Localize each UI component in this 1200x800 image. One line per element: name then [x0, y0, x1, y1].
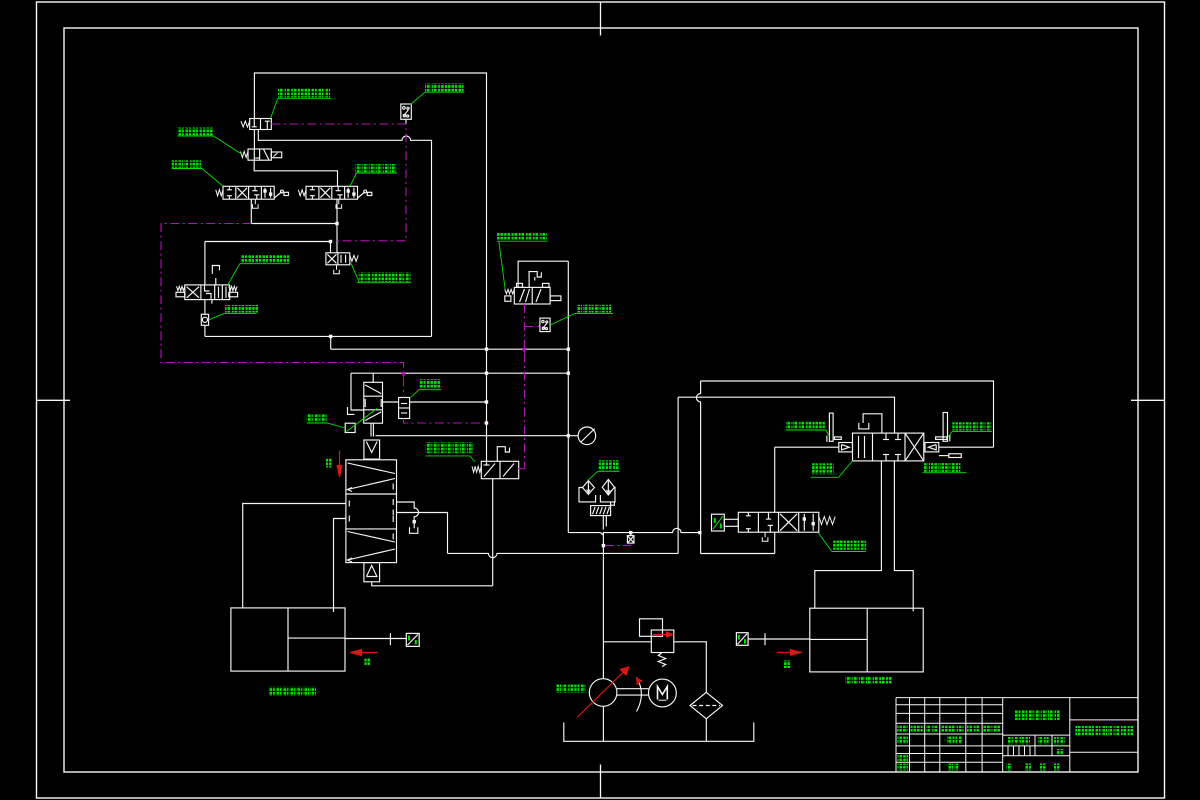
wire: bottom link from left riser to prop valve drop — [701, 553, 775, 555]
pilot through shuttle down to node x=486.5 — [403, 378, 405, 398]
label runner blade servomotor tank — [846, 676, 892, 684]
pilot EV bottom to PS2 and down to V7 — [523, 304, 525, 348]
pump oil tank open box — [564, 723, 754, 742]
wire: V1 top port up and across to long right drop — [254, 73, 486, 461]
label tb pages — [1054, 763, 1059, 770]
pilot line V1 to PS1 and down to node — [271, 124, 406, 241]
sensor left (blade close) — [829, 413, 833, 441]
orifice plug OX below collector — [630, 533, 632, 536]
wire: left tank to shut valve — [345, 638, 406, 640]
red arrow on motor coupling — [637, 679, 640, 685]
wire: block left port A line — [243, 504, 346, 608]
gauge G1 pressure gauge — [578, 427, 596, 445]
label tb zone — [926, 726, 938, 733]
pilot orifice branch at pump suction — [605, 543, 631, 546]
shuttle/throttle valve SV — [399, 398, 410, 419]
label prop solenoid valve 2 — [356, 164, 397, 172]
valve V3 servo solenoid valve 1 4/3 proportional — [223, 186, 274, 199]
label pressure relay 2 — [577, 305, 611, 313]
V8 left check attachment — [839, 443, 853, 452]
valve V1 hand/auto switch pilot valve 2/2 — [250, 119, 272, 130]
wire: pump suction drop x=603.4 — [602, 533, 604, 679]
label drawing title hydraulic system schematic — [1015, 710, 1061, 720]
label brake shutdown valve — [426, 442, 473, 453]
filters F1 F2 — [583, 481, 595, 495]
RV adjuster box — [345, 423, 355, 432]
wire: shuttle valve to long drop y=402 — [410, 401, 487, 403]
tank T2 runner blade servomotor — [810, 608, 923, 672]
label tb stage mark — [1008, 737, 1030, 744]
label hand-auto switch pilot valve — [278, 89, 330, 98]
title block grid — [896, 697, 1003, 699]
red arrow RA1 close direction on block — [339, 451, 341, 467]
label shuttle valve — [419, 379, 441, 389]
wire: right assembly outer box top — [701, 381, 994, 447]
main servo block B1 — [346, 460, 397, 563]
label tb mark — [897, 726, 907, 733]
wire: V1-V2 link — [253, 130, 255, 150]
label close (right tank) — [784, 660, 791, 668]
wire: reducing valve inlet stub from line y=373 — [372, 373, 374, 382]
wire: left valve-box bottom edge — [205, 335, 432, 337]
linear displacement sensor body — [949, 454, 962, 458]
shut-off ball valve BV2 — [736, 633, 748, 646]
wire: line y=373 from reducing-valve pilot to right drop — [351, 372, 568, 374]
wire: relief valve branch y=641.8 — [603, 641, 651, 643]
label tb craft — [898, 764, 909, 771]
label remote control check valve — [225, 305, 258, 313]
wire: return double line under reducing valve — [370, 423, 372, 436]
label emergency stop solenoid valve — [497, 232, 547, 240]
valve V6 manual operated solenoid valve 4/3 — [185, 285, 230, 300]
label pressure oil source P — [556, 684, 585, 693]
green marks in ball valve BV2 — [738, 635, 740, 640]
label blade close actuator — [786, 421, 825, 429]
red arrow inside relief valve — [653, 634, 668, 636]
wire: return filter to tank — [705, 719, 707, 742]
V7 pilot hook — [497, 447, 509, 462]
valve V8 main right distribution valve — [853, 433, 924, 461]
label directional valve — [307, 414, 327, 422]
label filter — [599, 460, 620, 470]
red arrow RA2 at tank T1 — [360, 652, 378, 654]
magenta arrows — [401, 372, 406, 378]
wire: brake valve bottom drain drop to return line y=585.8 — [492, 479, 494, 586]
label project name turbine governor system — [1075, 726, 1133, 735]
green marks in ball valve BV1 — [408, 636, 410, 641]
wire: right shut valve to right tank — [748, 638, 810, 640]
tank T1 guide vane servomotor — [231, 608, 345, 671]
wire: right drop from enclosure corner down to collector corner — [567, 261, 569, 532]
label tb design — [898, 736, 909, 743]
wire: left side of right assembly with hop at y=397 — [696, 381, 700, 554]
green adjuster arrow on RV — [347, 409, 378, 432]
wire: gauge line y=435.5 — [376, 435, 579, 437]
reducing valve RV stack — [364, 382, 383, 423]
wire: block right port to drain pocket with hop — [397, 502, 419, 522]
label servo solenoid valve 1 — [172, 160, 201, 168]
motor M1 — [649, 679, 677, 707]
wire: drain pocket stub and cup — [413, 522, 415, 529]
label tb checked — [898, 755, 909, 762]
wire: block right port B to transfer line y=553.4 — [397, 513, 448, 554]
valve V4 proportional solenoid valve 2 4/3 proportional — [306, 186, 358, 199]
wire: left valve-box top edge — [205, 241, 331, 243]
wire: V4 bottom down through nodes to V5 top right port — [336, 199, 338, 253]
label manual operated solenoid valve — [241, 255, 290, 263]
centering tick left — [37, 399, 71, 401]
label switching solenoid valve — [178, 128, 213, 136]
wire: reducing valve to shuttle valve link y=402 left — [383, 401, 399, 403]
wire: V3 bottom down to node row y=223.5 — [250, 199, 252, 223]
valve V7 brake/shutdown valve 2/2 — [481, 461, 518, 478]
motor letter M — [658, 687, 668, 700]
wire: V2 bottom to V4 top — [254, 160, 337, 186]
relief valve RF1 — [651, 630, 674, 653]
V6 pilot bracket — [212, 266, 219, 274]
label tb sign — [967, 726, 980, 733]
centering tick right — [1131, 399, 1165, 401]
label open (at block red arrow) — [326, 458, 332, 468]
wire: relief to return filter — [674, 642, 707, 693]
wire: main right valve right port line — [939, 446, 994, 448]
V9 proportional solenoid box — [712, 514, 725, 531]
wire: V1 bottom to throttle line y=140 with hop over magenta, down right side — [258, 130, 431, 337]
down stem double line — [602, 516, 604, 530]
label linear displacement sensor — [923, 463, 960, 472]
wire: collector line y=532.6 with hop at x=676.8 — [568, 528, 700, 535]
label pressure reducing valve — [812, 463, 834, 474]
wire: transfer line y=553.4 with hop over drain drop — [448, 553, 679, 557]
pressure switch PS1 — [401, 104, 412, 119]
valve EV emergency stop solenoid valve 3/2 — [514, 287, 550, 304]
wire: pump outlet to tank bottom — [602, 706, 604, 741]
junction dots — [335, 222, 338, 225]
wire: riser x=678 from line y=397 to transfer line — [677, 397, 679, 553]
sensor right (blade open) — [943, 413, 947, 442]
pilot operated check valve CV1 — [201, 314, 208, 325]
label pressure relay 1 — [425, 84, 464, 92]
pilot loop left box — [161, 224, 404, 373]
label guide vane servomotor tank — [269, 687, 316, 696]
valve V9 proportional directional 4/3 proportional — [738, 512, 819, 532]
wire: return line y=585.8 from block check valve — [372, 582, 493, 586]
return filter F3 — [690, 692, 723, 719]
green marks in V9 prop solenoid — [713, 516, 723, 529]
label hand-auto switching solenoid valve — [359, 272, 411, 282]
label tb change file no — [941, 726, 964, 733]
label tb date — [984, 726, 1001, 733]
label tb standardization — [947, 736, 963, 743]
wire: node to V5 top left port — [330, 242, 332, 253]
wire: main right valve left port line — [775, 446, 839, 448]
RV pilot bracket marks — [348, 407, 355, 414]
shaft coupling — [617, 688, 649, 690]
EV pilot hook — [529, 272, 541, 288]
valve V5 hand-auto switching solenoid valve — [326, 253, 350, 265]
pump P1 — [589, 679, 617, 707]
label tb approve — [949, 764, 960, 771]
label tb scale — [1054, 737, 1065, 744]
check valve CB2 (triangle) — [364, 563, 380, 582]
V8 pilot hook — [863, 414, 882, 433]
wire: block left port B line — [334, 519, 346, 613]
wire: stub from box bottom to main line y=349.2 — [330, 336, 332, 349]
shut-off ball valve BV1 — [406, 633, 419, 646]
pressure switch PS2 — [540, 318, 550, 332]
label tb weight — [1038, 737, 1049, 744]
wire: right valve A/B down lines to right tank — [815, 461, 882, 608]
V3 proportional pilot symbol — [274, 192, 281, 198]
cooler HX hatched box — [591, 506, 611, 516]
wire: main pressure line y=349.2 — [331, 348, 569, 350]
valve V2 switching solenoid valve 2/2 — [248, 149, 271, 160]
wire: left valve-box left edge through V6 and pilot check valve — [204, 242, 206, 285]
label tb page — [1040, 763, 1045, 770]
wire: emergency valve enclosure top — [518, 261, 568, 287]
wire: pilot line y=397 into main right valve top — [678, 397, 894, 433]
V8 right check attachment — [925, 443, 939, 452]
label tb sheets — [1007, 763, 1012, 770]
centering tick top — [600, 2, 602, 36]
wire: node row y=223.5 white part — [251, 223, 337, 225]
label close (left tank) — [364, 658, 370, 665]
filter manifold outline — [579, 488, 596, 502]
label tb sheet — [1026, 763, 1031, 770]
red arrow RA4 at tank T2 — [777, 651, 792, 653]
wire: prop valve vertical through-line — [774, 447, 776, 512]
label proportional directional valve — [833, 541, 866, 550]
centering tick bottom — [600, 765, 602, 799]
red arrow RA3 through pump — [577, 670, 626, 718]
label tb count — [911, 726, 923, 733]
label blade open actuator — [952, 422, 991, 430]
check valve CB1 (V symbol) — [364, 440, 380, 459]
wire: pilot drop into reducing valve left side — [351, 373, 364, 410]
